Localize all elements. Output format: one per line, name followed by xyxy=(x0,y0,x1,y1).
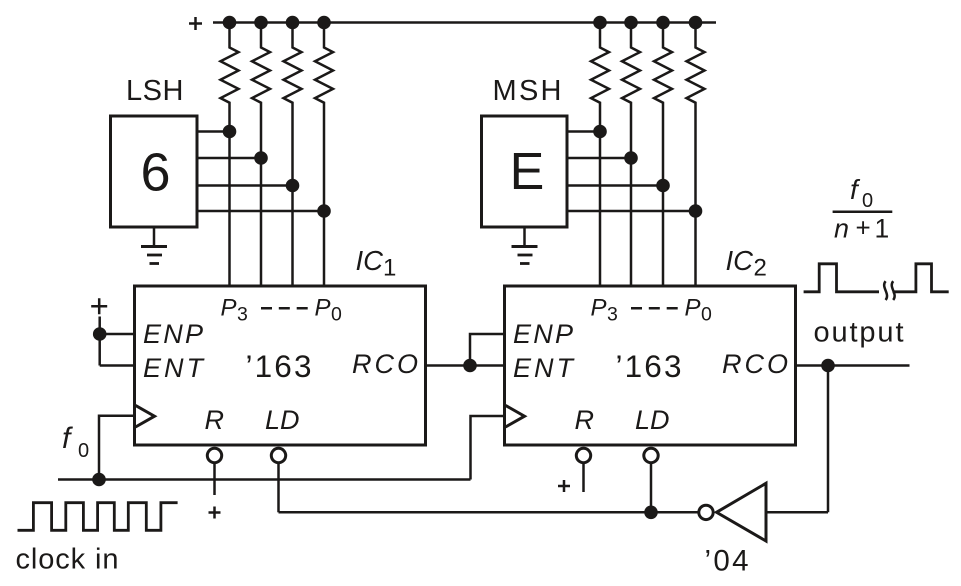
svg-text:P: P xyxy=(591,294,607,321)
clock waveform xyxy=(18,503,178,531)
node MSH bit1 junction xyxy=(656,179,670,193)
wire LD stub IC1 xyxy=(277,464,280,513)
node rail dot 5 xyxy=(593,16,607,30)
svg-text:3: 3 xyxy=(237,304,248,326)
node rail dot 8 xyxy=(689,16,703,30)
resistor pullup 7 xyxy=(654,23,672,287)
inverter U1 '04 triangle xyxy=(717,483,767,541)
svg-text:R: R xyxy=(575,405,595,435)
inverter bubble '04 xyxy=(699,505,713,519)
wire P3-P0 dashes xyxy=(261,307,308,310)
fraction bar xyxy=(833,211,893,214)
svg-text:+: + xyxy=(856,213,871,243)
power rail + symbol xyxy=(189,17,202,30)
svg-text:f: f xyxy=(62,422,73,455)
wire R stub IC1 xyxy=(213,464,216,496)
label f0 clock xyxy=(62,422,89,462)
label IC1 xyxy=(356,245,397,282)
wire ENP to ENT IC1 xyxy=(98,334,101,366)
svg-text:LD: LD xyxy=(265,405,300,435)
svg-text:’04: ’04 xyxy=(705,545,749,578)
svg-text:n: n xyxy=(834,213,849,243)
bubble R IC1 xyxy=(207,448,221,462)
wire power rail xyxy=(213,21,716,24)
node LSH bit1 junction xyxy=(286,179,300,193)
node ENP junction IC1 xyxy=(93,327,107,341)
svg-text:ENT: ENT xyxy=(143,353,206,383)
label P3 xyxy=(221,294,248,325)
node LSH bit3 junction xyxy=(223,125,237,139)
wire output to inverter xyxy=(827,366,830,513)
svg-text:P: P xyxy=(221,294,237,321)
ground LSH xyxy=(141,227,167,264)
svg-text:E: E xyxy=(510,143,545,201)
label f0 fraction numerator xyxy=(850,174,873,212)
wire MSH bit2 xyxy=(567,157,631,160)
wire RCO2 output xyxy=(796,364,910,367)
svg-text:IC: IC xyxy=(726,245,754,276)
node output junction xyxy=(821,359,835,373)
box LSH value xyxy=(111,116,198,227)
resistor pullup 2 xyxy=(252,23,270,287)
resistor pullup 3 xyxy=(284,23,302,287)
label P3 IC2 xyxy=(591,294,618,325)
wire LD stub IC2 xyxy=(650,464,653,513)
svg-text:6: 6 xyxy=(140,143,170,203)
resistor pullup 6 xyxy=(622,23,640,287)
svg-text:1: 1 xyxy=(383,255,396,282)
label IC2 xyxy=(726,245,767,281)
power + at R IC2 xyxy=(558,480,570,492)
svg-text:0: 0 xyxy=(701,304,712,326)
svg-text:ENP: ENP xyxy=(513,319,573,349)
resistor pullup 8 xyxy=(687,23,705,287)
label P0 IC2 xyxy=(685,294,713,325)
svg-text:0: 0 xyxy=(331,304,342,326)
svg-text:R: R xyxy=(205,405,225,435)
bubble R IC2 xyxy=(576,448,590,462)
IC2 counter box xyxy=(505,286,796,445)
wire MSH bit1 xyxy=(567,184,663,187)
node rail dot 6 xyxy=(624,16,638,30)
bubble LD IC2 xyxy=(644,448,658,462)
wire LSH bit3 xyxy=(197,130,230,133)
wire R stub IC2 xyxy=(582,464,585,493)
svg-text:ENT: ENT xyxy=(513,353,576,383)
waveform break squiggle xyxy=(884,281,894,300)
node rail dot 1 xyxy=(223,16,237,30)
wire inverter input xyxy=(766,511,828,514)
svg-text:clock in: clock in xyxy=(16,544,119,576)
resistor pullup 4 xyxy=(315,23,333,287)
wire P3-P0 dashes IC2 xyxy=(631,307,678,310)
svg-text:2: 2 xyxy=(754,254,767,281)
power + at R IC1 xyxy=(209,507,221,519)
node rail dot 2 xyxy=(254,16,268,30)
bubble LD IC1 xyxy=(271,448,285,462)
node rail dot 4 xyxy=(317,16,331,30)
clock input triangle IC1 xyxy=(136,405,155,427)
node MSH bit2 junction xyxy=(624,151,638,165)
wire LSH bit1 xyxy=(197,184,293,187)
wire RCO1 to ENT2 xyxy=(426,364,505,367)
svg-text:LSH: LSH xyxy=(126,75,184,107)
svg-text:0: 0 xyxy=(78,440,89,462)
node clock junction IC1 xyxy=(92,473,106,487)
svg-text:IC: IC xyxy=(356,245,384,276)
svg-text:3: 3 xyxy=(607,304,618,326)
wire ENT IC1 xyxy=(100,364,133,367)
node LSH bit0 junction xyxy=(317,204,331,218)
svg-text:’163: ’163 xyxy=(246,348,312,384)
wire LD net xyxy=(279,511,700,514)
wire clock line xyxy=(58,478,471,481)
label P0 xyxy=(315,294,343,325)
output waveform xyxy=(804,264,949,292)
svg-text:output: output xyxy=(814,316,904,348)
svg-text:ENP: ENP xyxy=(143,319,203,349)
svg-text:’163: ’163 xyxy=(616,348,682,384)
svg-text:RCO: RCO xyxy=(352,349,418,379)
wire ENP IC1 xyxy=(100,333,133,336)
svg-text:1: 1 xyxy=(875,213,890,243)
node MSH bit0 junction xyxy=(689,204,703,218)
node LD junction xyxy=(644,506,658,520)
svg-text:P: P xyxy=(685,294,701,321)
node LSH bit2 junction xyxy=(254,151,268,165)
wire MSH bit3 xyxy=(567,130,600,133)
svg-text:0: 0 xyxy=(862,190,873,212)
wire ENP bracket IC2 xyxy=(470,334,505,366)
wire + to ENP node xyxy=(98,317,101,335)
node MSH bit3 junction xyxy=(593,125,607,139)
svg-text:MSH: MSH xyxy=(493,75,562,107)
ground MSH xyxy=(512,227,538,264)
resistor pullup 1 xyxy=(221,23,239,287)
svg-text:RCO: RCO xyxy=(722,349,788,379)
wire clock into IC2 xyxy=(471,416,504,480)
node RCO1 junction xyxy=(463,359,477,373)
IC1 counter box xyxy=(135,286,426,445)
node rail dot 3 xyxy=(286,16,300,30)
svg-text:f: f xyxy=(850,174,861,205)
wire LSH bit0 xyxy=(197,210,324,213)
wire MSH bit0 xyxy=(567,210,696,213)
svg-text:P: P xyxy=(315,294,331,321)
box MSH value xyxy=(482,116,568,227)
node rail dot 7 xyxy=(656,16,670,30)
wire LSH bit2 xyxy=(197,157,261,160)
resistor pullup 5 xyxy=(591,23,609,287)
power + at ENP IC1 xyxy=(91,298,107,314)
clock input triangle IC2 xyxy=(506,405,525,427)
svg-text:LD: LD xyxy=(635,405,670,435)
wire clock into IC1 xyxy=(99,416,133,480)
